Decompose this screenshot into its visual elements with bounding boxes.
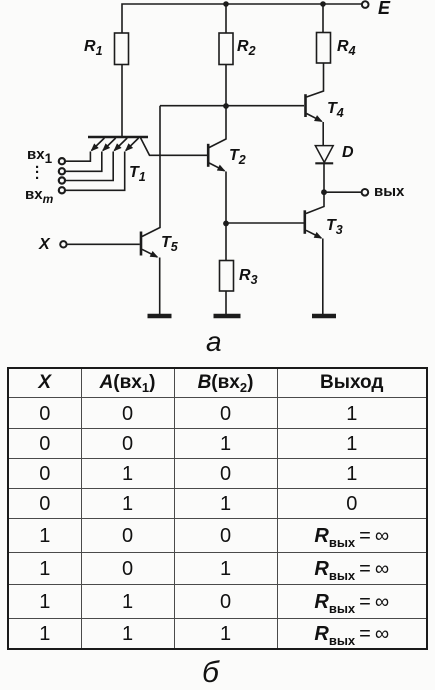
label вхm bbox=[25, 186, 53, 203]
label T5 bbox=[161, 234, 178, 252]
truth table bbox=[7, 367, 428, 650]
wire: T5 emitter to ground bbox=[159, 258, 161, 315]
terminal вх1 bbox=[59, 158, 65, 164]
transistor T3 emitter bbox=[306, 230, 321, 238]
transistor T1 base bar (multi-emitter) bbox=[88, 136, 148, 139]
transistor T1 emitter 2 bbox=[103, 138, 116, 151]
wire: X to T5 base bbox=[66, 243, 139, 245]
label R4 bbox=[337, 38, 356, 56]
wire: output node to terminal bbox=[324, 191, 362, 193]
label R3 bbox=[239, 267, 258, 285]
wire: R4 bottom to T4 collector bbox=[307, 63, 324, 97]
wire: T3 emitter to ground bbox=[322, 239, 324, 315]
transistor T4 base bar bbox=[304, 94, 307, 117]
terminal вых bbox=[362, 189, 369, 196]
diode D bbox=[315, 146, 333, 163]
label б bbox=[202, 656, 219, 690]
transistor T1 emitter 3 bbox=[114, 138, 127, 151]
wire: node to T3 base bbox=[226, 222, 304, 224]
resistor R4 bbox=[322, 4, 324, 33]
node: rail junction above R4 bbox=[320, 1, 326, 7]
label а bbox=[206, 326, 222, 358]
label T4 bbox=[327, 100, 344, 118]
ground (T5) bbox=[148, 314, 172, 318]
transistor T2 base bar bbox=[207, 144, 210, 167]
transistor T5 emitter bbox=[142, 249, 157, 257]
wire: input 2 to emitter 2 bbox=[65, 152, 102, 172]
label вх1 bbox=[27, 146, 52, 163]
wire: T2 emitter to R3 bbox=[225, 172, 227, 261]
terminal вхm bbox=[59, 187, 65, 193]
ground (T3) bbox=[312, 314, 336, 318]
transistor T3 base bar bbox=[303, 210, 306, 234]
wire: T1 collector to T2 base bbox=[141, 138, 208, 156]
wire: T3 collector bbox=[306, 192, 324, 213]
transistor T5 base bar bbox=[140, 232, 143, 256]
node: R2 / T2 collector / T4 base junction bbox=[223, 103, 229, 109]
terminal E bbox=[362, 1, 369, 8]
label D bbox=[342, 144, 354, 162]
terminal вх3 bbox=[59, 177, 65, 183]
wire: R1 to T1 base bbox=[121, 65, 123, 137]
wire: input 4 to emitter 4 bbox=[65, 152, 125, 191]
transistor T1 emitter 4 bbox=[126, 138, 139, 151]
wire: T2 collector bbox=[209, 106, 226, 148]
transistor T2 emitter bbox=[209, 163, 224, 171]
wire: T4 emitter to diode bbox=[322, 122, 324, 145]
node: rail junction above R2 bbox=[223, 1, 229, 7]
wire: node to T4 base bbox=[160, 105, 304, 107]
ground (R3) bbox=[214, 314, 241, 318]
wire: +E supply rail bbox=[122, 4, 362, 33]
node: output junction bbox=[321, 189, 327, 195]
label T1 bbox=[129, 164, 146, 182]
wire: input 3 to emitter 3 bbox=[65, 152, 113, 181]
transistor T4 emitter bbox=[307, 114, 322, 122]
terminal вх2 bbox=[59, 168, 65, 174]
resistor R3 bbox=[220, 261, 234, 292]
label dots bbox=[35, 161, 39, 177]
transistor T1 emitter 1 bbox=[92, 138, 105, 151]
wire: diode to output node bbox=[323, 164, 325, 192]
resistor R2 bbox=[225, 4, 227, 33]
label T2 bbox=[229, 147, 246, 165]
wire: R3 to ground bbox=[225, 291, 227, 314]
label R1 bbox=[84, 38, 103, 56]
terminal X bbox=[60, 241, 66, 247]
label вых bbox=[374, 183, 404, 200]
label E bbox=[378, 0, 390, 19]
wire: input 1 to emitter 1 bbox=[65, 152, 91, 162]
node: T2 emitter / R3 / T3 base junction bbox=[223, 221, 229, 227]
label R2 bbox=[237, 38, 256, 56]
label T3 bbox=[326, 217, 343, 235]
wire: T5 collector riser bbox=[142, 106, 160, 237]
resistor R1 bbox=[115, 33, 129, 65]
label X bbox=[39, 236, 50, 254]
wire: R2 bottom to node bbox=[225, 65, 227, 107]
